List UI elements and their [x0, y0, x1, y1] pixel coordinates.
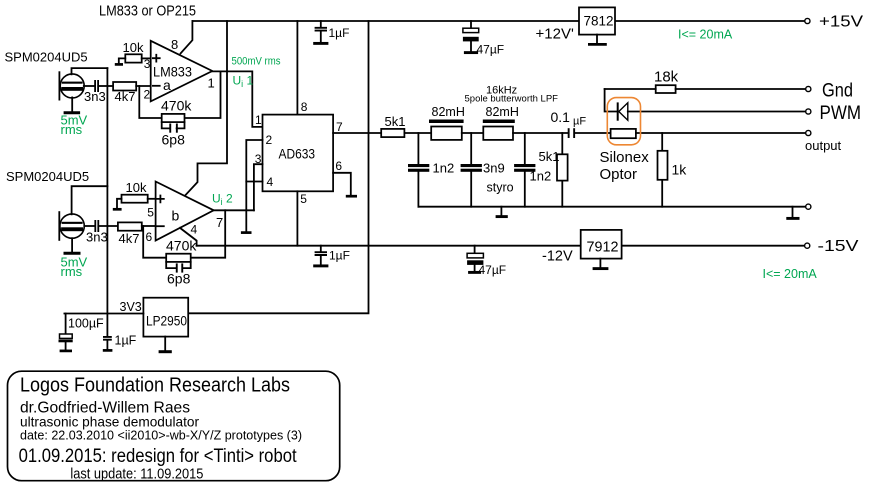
label 5mV rms (2) — [61, 255, 88, 280]
svg-text:+15V: +15V — [819, 14, 863, 31]
svg-text:7: 7 — [336, 120, 343, 134]
terminal ground bus — [806, 204, 811, 209]
svg-text:-12V: -12V — [542, 249, 573, 265]
capacitor 47uF top — [463, 21, 504, 57]
svg-text:1µF: 1µF — [329, 26, 350, 40]
terminal Gnd — [806, 81, 853, 102]
wire L1 to L2 — [462, 132, 484, 134]
svg-text:8: 8 — [171, 37, 178, 52]
capacitor 3n3 (2) — [84, 220, 118, 245]
svg-text:Silonex: Silonex — [600, 149, 650, 166]
svg-text:SPM0204UD5: SPM0204UD5 — [5, 50, 88, 65]
capacitor 1uF top decoupling — [313, 21, 349, 43]
label 16kHz LPF — [465, 85, 559, 105]
svg-text:1n2: 1n2 — [530, 169, 552, 184]
capacitor 47uF bottom — [467, 246, 506, 277]
microphone SPM0204UD5 (1) — [5, 50, 88, 101]
svg-text:1: 1 — [208, 76, 215, 91]
svg-text:Gnd: Gnd — [822, 81, 853, 102]
regulator 7912 — [581, 230, 622, 259]
wire AD633 pin 5 to -12V rail — [297, 191, 307, 245]
svg-text:10k: 10k — [126, 180, 147, 195]
svg-text:470k: 470k — [166, 238, 197, 254]
svg-text:3n9: 3n9 — [483, 161, 505, 176]
svg-text:b: b — [172, 208, 180, 224]
svg-text:LM833 or OP215: LM833 or OP215 — [99, 3, 196, 20]
wire AD633 pin 6 to ground — [333, 159, 357, 196]
svg-text:470k: 470k — [161, 98, 192, 114]
capacitor 3n9 — [461, 133, 514, 207]
svg-text:rms: rms — [61, 122, 83, 137]
ground 7912 — [593, 259, 609, 269]
wire 3V3 rail — [64, 300, 143, 314]
svg-text:LM833: LM833 — [153, 64, 192, 80]
svg-text:styro: styro — [487, 181, 514, 195]
wire op-amp A output to AD633 pin 1 — [212, 71, 262, 127]
svg-text:PWM: PWM — [820, 103, 862, 124]
svg-text:1n2: 1n2 — [433, 161, 455, 176]
svg-text:5: 5 — [300, 192, 307, 206]
resistor 5k1 (shunt) — [539, 133, 568, 207]
svg-text:AD633: AD633 — [279, 146, 316, 162]
resistor 470k (B feedback) — [143, 210, 225, 262]
node +12V drop to LM833 B supply — [185, 21, 227, 196]
opto outline Silonex — [600, 98, 650, 183]
svg-text:I<= 20mA: I<= 20mA — [763, 267, 818, 281]
svg-text:2: 2 — [266, 133, 273, 147]
terminal output — [805, 130, 842, 153]
svg-text:6p8: 6p8 — [162, 132, 186, 148]
resistor 18k — [605, 69, 806, 112]
capacitor 3n3 (1) — [84, 80, 113, 104]
svg-text:5pole butterworth LPF: 5pole butterworth LPF — [465, 94, 559, 105]
wire AD633 pin 4 to ground — [246, 175, 273, 189]
wire op-amp B pin 4 to -12V rail — [180, 223, 198, 246]
svg-text:3n3: 3n3 — [86, 230, 108, 245]
ground bus right symbol — [786, 207, 799, 219]
svg-text:I<= 20mA: I<= 20mA — [678, 28, 733, 42]
wire 5k1 to L1 — [404, 132, 431, 134]
ground LP2950 — [159, 337, 172, 352]
svg-text:-15V: -15V — [818, 238, 860, 255]
svg-text:18k: 18k — [654, 69, 679, 86]
wire +12V down to LP2950 input — [188, 21, 368, 313]
microphone SPM0204UD5 (2) — [6, 169, 89, 241]
capacitor 1uF bottom decoupling — [313, 246, 350, 266]
capacitor 6p8 (B feedback) — [166, 262, 191, 287]
svg-text:1: 1 — [255, 113, 262, 127]
svg-text:500mV rms: 500mV rms — [232, 56, 281, 68]
svg-text:4: 4 — [267, 175, 274, 189]
IC AD633 — [263, 115, 334, 192]
inductor 82mH (2) — [483, 105, 519, 140]
capacitor 1n2 (first shunt) — [408, 133, 454, 207]
wire AD633 pin 8 to +12V rail — [296, 21, 298, 115]
svg-text:5k1: 5k1 — [539, 149, 560, 164]
svg-text:5k1: 5k1 — [385, 114, 406, 129]
wire AD633 pin 3 to Ui2 — [254, 152, 263, 210]
svg-text:last update: 11.09.2015: last update: 11.09.2015 — [70, 467, 203, 483]
svg-text:5: 5 — [147, 206, 154, 220]
wire 3V3 vertical feed — [106, 68, 108, 336]
resistor 5k1 (series) — [381, 114, 405, 137]
op-amp U1b LM833 — [146, 182, 224, 245]
svg-text:3: 3 — [144, 57, 151, 71]
wire AD633 pin 7 output — [333, 120, 381, 134]
svg-text:7812: 7812 — [584, 13, 614, 29]
svg-text:date: 22.03.2010 <ii2010>-wb-: date: 22.03.2010 <ii2010>-wb-X/Y/Z proto… — [20, 428, 302, 443]
svg-text:Ui 1: Ui 1 — [233, 74, 254, 90]
wire op-amp A pin 8 to +12V rail — [181, 21, 193, 53]
svg-text:3n3: 3n3 — [84, 89, 106, 104]
svg-text:4k7: 4k7 — [119, 231, 140, 246]
svg-text:rms: rms — [61, 264, 83, 279]
svg-text:01.09.2015: redesign for <Tint: 01.09.2015: redesign for <Tinti> robot — [19, 446, 298, 467]
svg-text:6: 6 — [146, 230, 153, 244]
svg-text:3V3: 3V3 — [120, 300, 142, 314]
terminal +15V — [805, 14, 864, 31]
svg-text:6p8: 6p8 — [167, 271, 191, 287]
svg-text:4: 4 — [191, 223, 198, 237]
resistor 470k (A feedback) — [139, 71, 220, 122]
svg-text:4k7: 4k7 — [115, 89, 136, 104]
svg-text:2: 2 — [144, 88, 151, 102]
wire mic1 to 3V3 — [72, 68, 108, 74]
wire ground bus — [418, 206, 806, 208]
regulator LP2950 — [143, 298, 188, 337]
ground mic2 — [64, 238, 81, 253]
svg-text:82mH: 82mH — [486, 105, 519, 119]
svg-text:SPM0204UD5: SPM0204UD5 — [6, 169, 89, 184]
ground mic1 — [64, 97, 81, 112]
svg-text:1µF: 1µF — [115, 334, 137, 348]
resistor 4k7 (1) — [113, 82, 151, 104]
svg-text:100µF: 100µF — [68, 317, 104, 331]
capacitor 1n2 (second shunt) — [514, 133, 551, 207]
wire AD633 pin 2 to ground — [241, 133, 273, 233]
svg-text:1k: 1k — [672, 162, 688, 178]
resistor 10k (B) — [113, 180, 156, 209]
wire -12V rail — [197, 245, 805, 247]
resistor 1k — [658, 133, 688, 207]
resistor 10k (A) — [115, 40, 151, 64]
inductor 82mH (1) — [429, 105, 465, 140]
legend box Logos Foundation — [8, 371, 340, 482]
resistor 4k7 (2) — [118, 222, 156, 246]
wire L2 to 0.1uF — [513, 132, 568, 134]
svg-text:10k: 10k — [123, 40, 144, 55]
label 5mV rms (1) — [61, 113, 88, 138]
svg-text:47µF: 47µF — [479, 263, 507, 277]
svg-text:+12V': +12V' — [536, 26, 574, 43]
svg-text:Logos Foundation Research Labs: Logos Foundation Research Labs — [20, 375, 290, 397]
svg-text:Ui 2: Ui 2 — [212, 192, 233, 208]
capacitor 100uF — [59, 314, 105, 351]
capacitor 0.1uF coupling — [551, 109, 587, 138]
capacitor 6p8 (A feedback) — [162, 122, 186, 147]
svg-text:8: 8 — [301, 100, 308, 114]
svg-text:47µF: 47µF — [477, 43, 505, 57]
terminal -15V — [805, 238, 860, 255]
wire mic2 to 3V3 — [72, 186, 108, 214]
svg-text:output: output — [805, 138, 842, 153]
opto LED — [618, 102, 806, 120]
svg-text:a: a — [163, 77, 171, 93]
wire op-amp B output to AD633 pin 3 — [214, 209, 254, 211]
wire 0.1uF to photoresistor — [575, 132, 610, 134]
opto photoresistor — [611, 129, 806, 138]
svg-text:1µF: 1µF — [329, 249, 350, 263]
terminal PWM — [806, 103, 861, 124]
svg-text:LP2950: LP2950 — [146, 314, 187, 329]
svg-text:Optor: Optor — [600, 166, 638, 183]
svg-text:7: 7 — [216, 215, 223, 230]
op-amp U1a LM833 — [144, 37, 215, 102]
svg-text:82mH: 82mH — [432, 105, 465, 119]
ground bus left symbol — [496, 207, 508, 217]
svg-text:6: 6 — [335, 159, 342, 173]
svg-text:7912: 7912 — [587, 240, 619, 256]
wire +12V top rail — [192, 20, 805, 22]
ground 7812 — [588, 35, 607, 45]
svg-text:3: 3 — [255, 152, 262, 166]
regulator 7812 — [579, 7, 615, 34]
capacitor 1uF (3V3) — [103, 334, 137, 351]
